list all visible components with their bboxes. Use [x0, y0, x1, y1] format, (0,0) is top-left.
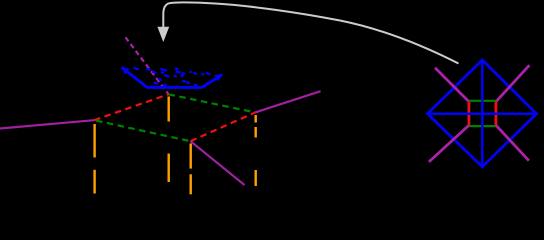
- rectified image: blue horizontal axis: [428, 113, 537, 116]
- orange drop line under B: [189, 144, 191, 195]
- purple ray from node L to left: [0, 120, 94, 128]
- rectified image: magenta diagonal bottom-right: [496, 126, 529, 161]
- purple ray from node R up right: [255, 91, 320, 112]
- rectified image: magenta diagonal top-right: [496, 65, 529, 101]
- gray annotation curve: [163, 2, 458, 63]
- rectified image: blue vertical axis: [481, 60, 484, 167]
- image plane arrowhead left: [121, 67, 129, 75]
- image plane PI (solid edges): [122, 67, 223, 87]
- gray arrowhead: [157, 27, 169, 42]
- rectified image: red right edge: [494, 102, 497, 126]
- orange drop line under T: [167, 97, 169, 183]
- rectified image: green bottom edge: [468, 125, 497, 127]
- rectified image: green top edge: [468, 100, 497, 102]
- 3D square edge green L-B: [94, 120, 190, 141]
- rectified image: magenta diagonal top-left: [435, 68, 469, 102]
- 3D square edge red B-R: [191, 112, 256, 141]
- purple ray from node B down right: [191, 141, 245, 185]
- orange drop line under R: [254, 115, 256, 186]
- image plane interior dashes: [133, 68, 210, 86]
- rectified image: blue diamond outline: [428, 60, 537, 167]
- image plane arrowhead right: [214, 74, 222, 81]
- orange drop line under L: [93, 124, 95, 194]
- rectified image: red left edge: [467, 102, 470, 126]
- 3D square edge red L-T: [94, 94, 168, 120]
- 3D square edge green T-R: [169, 94, 256, 112]
- magenta dashed ray through image plane to node T: [126, 37, 169, 94]
- rectified image: magenta diagonal bottom-left: [429, 126, 469, 162]
